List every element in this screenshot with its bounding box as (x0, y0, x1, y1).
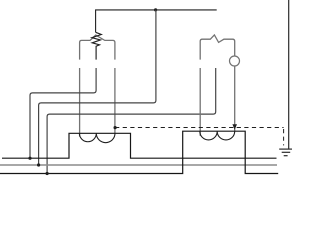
node dot bus B tap (37, 163, 40, 166)
dashed earth wire horizontal (115, 127, 284, 129)
node dot bus A tap (28, 157, 31, 160)
CT2 secondary coil arcs (200, 131, 235, 140)
node junction dot on top line (154, 8, 157, 11)
meter element 1 voltage coil zigzag (92, 32, 101, 59)
wire meter2 left current lead (199, 68, 201, 136)
bus C with CT2 primary loop (0, 131, 278, 173)
lamp/circle on meter2 right lead (230, 56, 240, 66)
wire top supply line (96, 10, 217, 32)
wire meter2 right lead below circle (234, 66, 236, 131)
node dot bus C tap (46, 172, 49, 175)
bus A with CT1 primary loop (2, 133, 277, 158)
meter element 2 current coil (right staple) (200, 35, 235, 60)
meter element 1 current coil (left staple) (80, 35, 115, 60)
wire meter2 voltage lead to bus C (47, 68, 216, 174)
wire from top line to bus B (39, 10, 156, 165)
node dot at dashed line start (114, 126, 117, 129)
arrow junction on CT2 (232, 124, 237, 130)
ground symbol (279, 148, 292, 150)
wire meter1 left current lead (79, 68, 81, 137)
wire meter1 voltage lead to bus A (30, 68, 96, 158)
wire right vertical to ground (288, 0, 290, 149)
bus B (middle, gray) (0, 164, 277, 166)
wire meter1 right current lead (114, 68, 116, 133)
dashed earth wire vertical (283, 129, 285, 145)
CT1 secondary coil arcs (79, 133, 115, 142)
